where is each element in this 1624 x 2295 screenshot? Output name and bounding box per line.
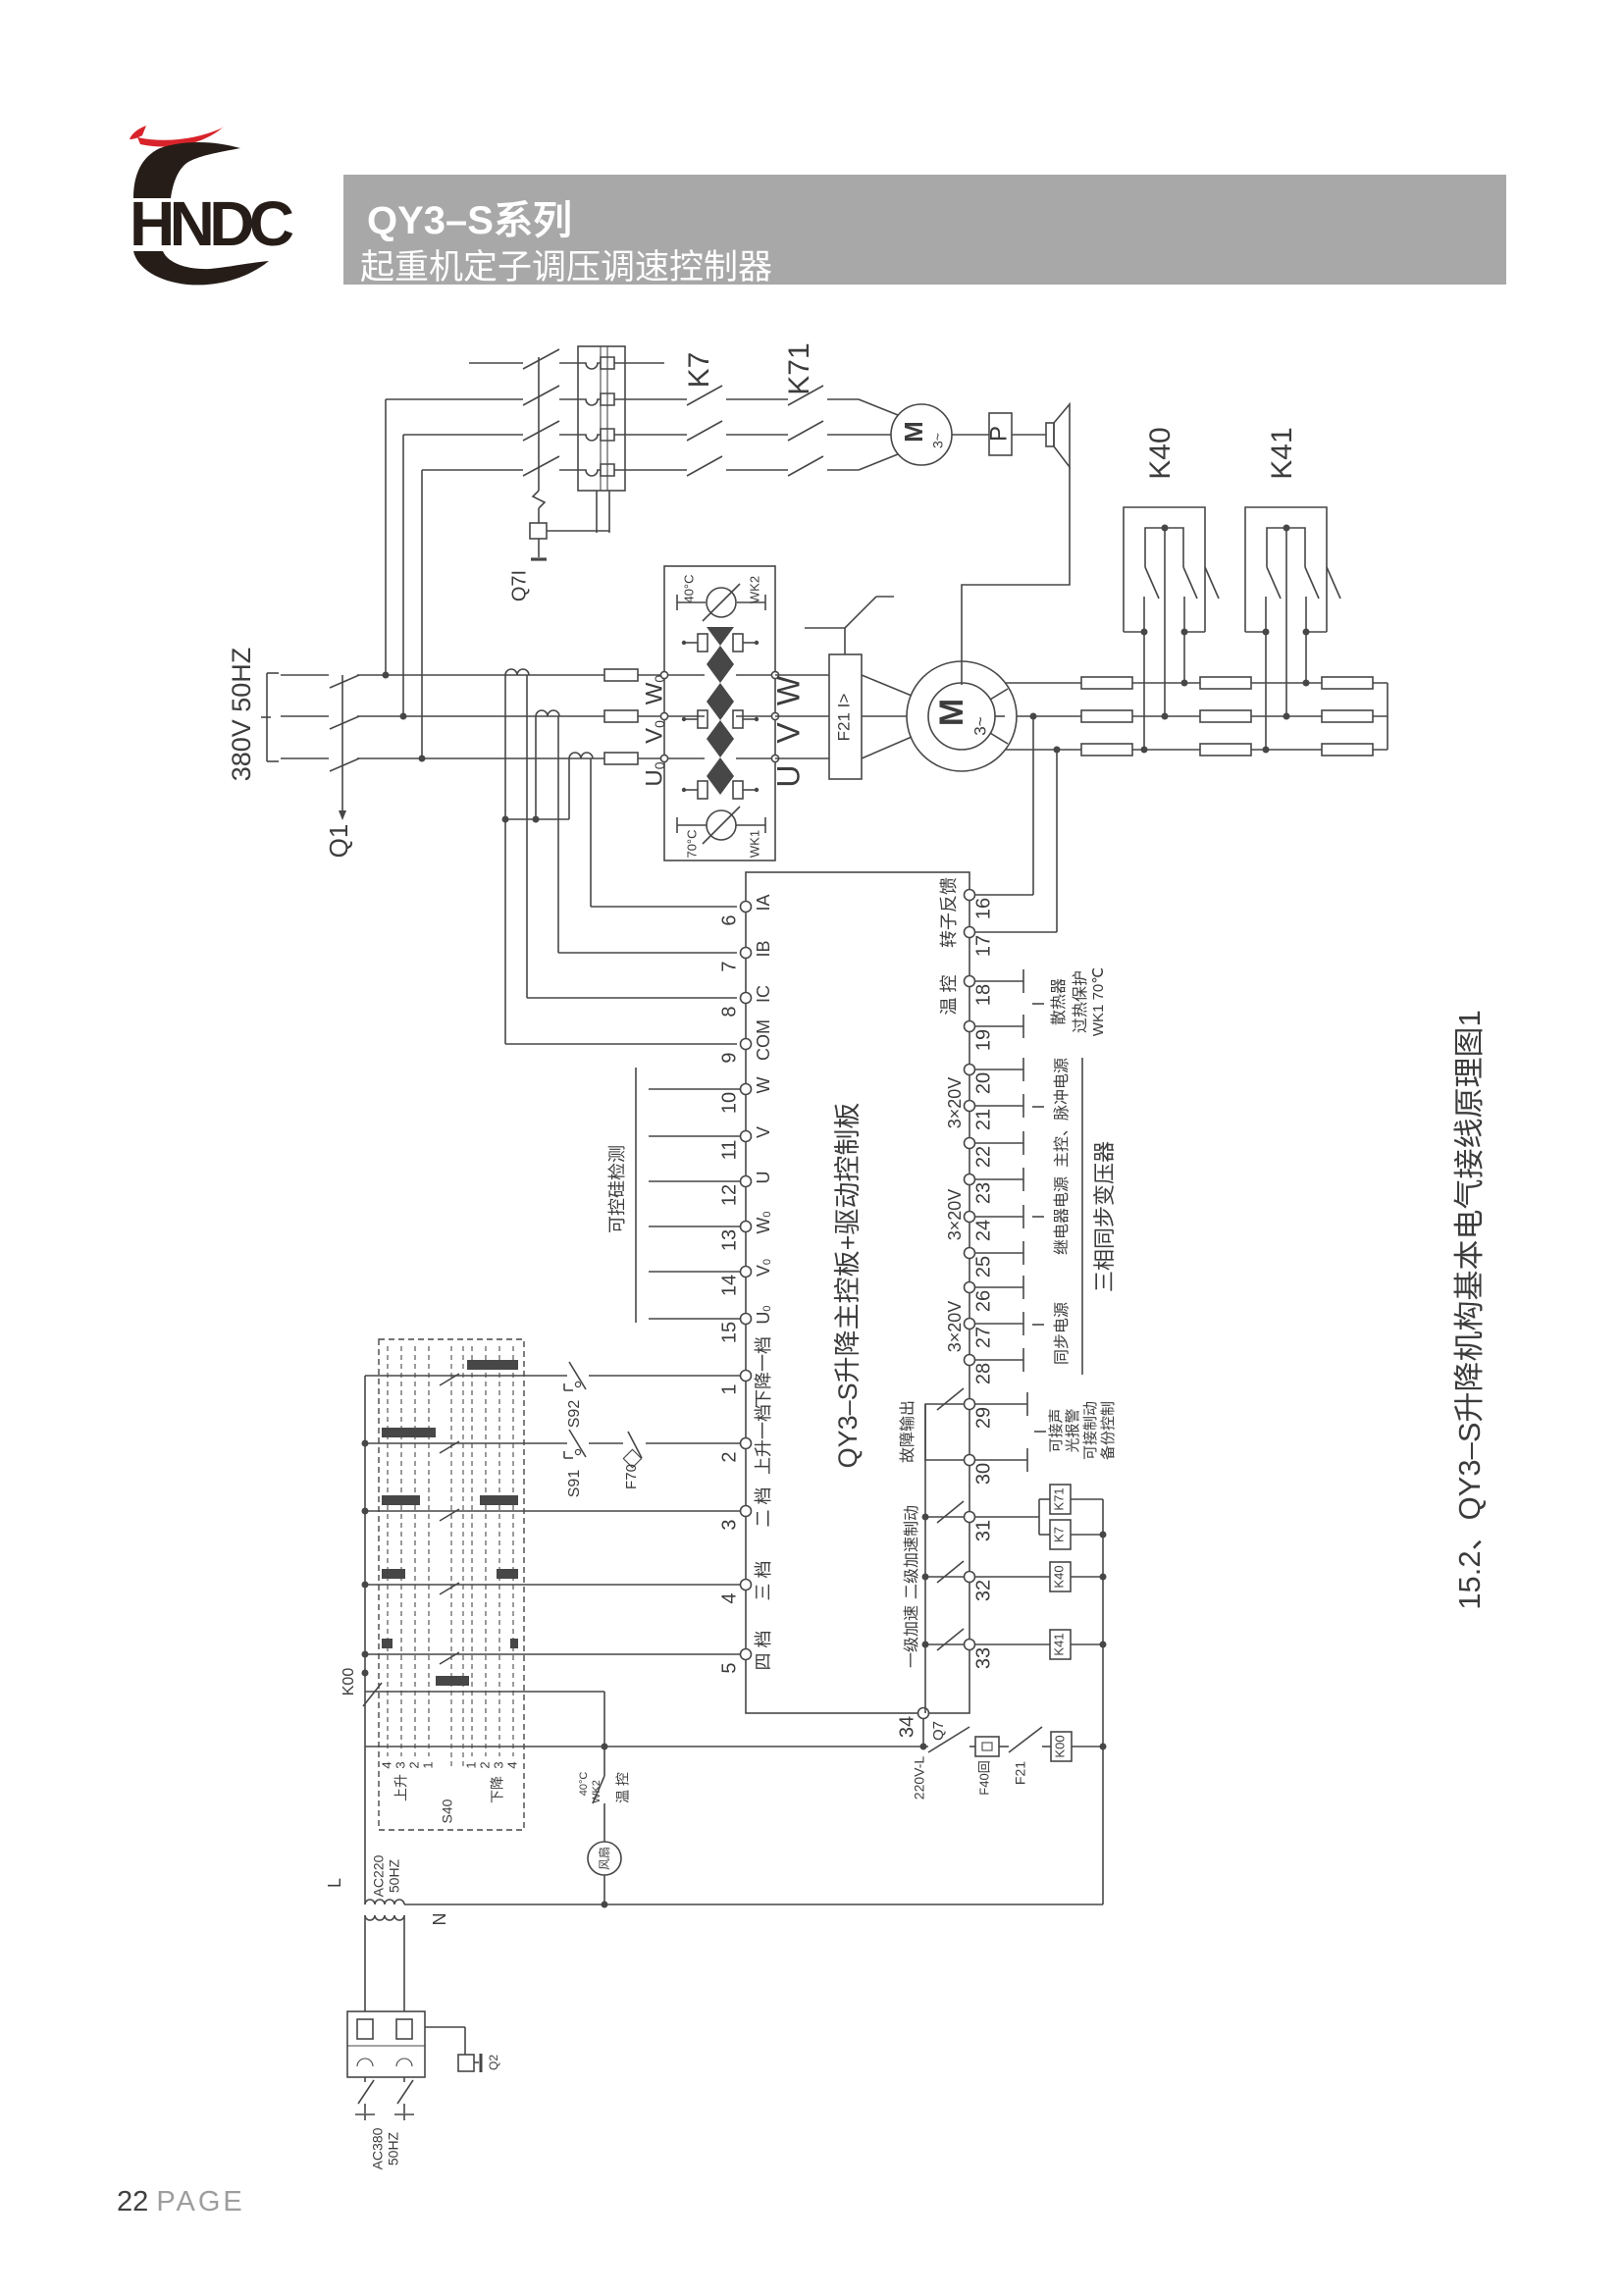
S40 row contacts <box>440 1374 459 1385</box>
wire pump to horn <box>1012 434 1046 436</box>
svg-text:9: 9 <box>718 1052 740 1063</box>
cooling fan <box>588 1842 621 1875</box>
brake motor M 3~ <box>891 404 952 465</box>
terminal 22 <box>965 1138 975 1149</box>
primary isolator poles <box>364 2077 366 2082</box>
resistor R3 <box>1081 744 1132 756</box>
terminal 5 <box>741 1649 752 1660</box>
svg-text:二 档: 二 档 <box>754 1487 773 1527</box>
svg-text:S91: S91 <box>566 1470 583 1498</box>
CT secondary drops <box>504 675 506 819</box>
svg-text:W: W <box>754 1077 773 1094</box>
svg-text:3~: 3~ <box>970 716 989 735</box>
terminal 31 <box>965 1512 975 1523</box>
svg-text:S40: S40 <box>440 1799 455 1823</box>
svg-text:24: 24 <box>972 1220 994 1241</box>
wire motor to pump <box>952 434 989 436</box>
svg-text:故障输出: 故障输出 <box>899 1400 917 1463</box>
thyristor module box <box>664 566 775 861</box>
terminal 15 <box>741 1314 752 1325</box>
logo black C crescent lower <box>133 251 269 285</box>
control rail <box>1102 1499 1104 1904</box>
terminal circles on thyristor box <box>660 671 667 678</box>
phase rows inside thyristor box <box>668 674 705 676</box>
svg-text:30: 30 <box>972 1463 994 1485</box>
svg-text:WK2: WK2 <box>747 576 761 603</box>
terminal 9 <box>741 1039 752 1050</box>
control transformer T1 secondary <box>364 1747 366 1904</box>
svg-text:AC380: AC380 <box>370 2127 386 2169</box>
svg-text:2: 2 <box>477 1761 492 1768</box>
svg-text:1: 1 <box>463 1761 478 1768</box>
svg-text:主控、脉冲电源: 主控、脉冲电源 <box>1053 1058 1071 1168</box>
K00 branch to fan <box>603 1692 605 1747</box>
terminal 21 <box>965 1101 975 1112</box>
svg-text:K40: K40 <box>1051 1565 1066 1588</box>
resistor right bus <box>1387 683 1388 750</box>
svg-text:V: V <box>770 722 806 744</box>
svg-text:IB: IB <box>754 940 773 957</box>
svg-text:23: 23 <box>972 1182 994 1204</box>
svg-text:WK1: WK1 <box>747 830 761 858</box>
svg-text:F70: F70 <box>623 1464 640 1489</box>
svg-text:F21: F21 <box>1013 1761 1028 1785</box>
master controller S40 dashed box <box>379 1339 524 1830</box>
horn / sounder <box>1046 423 1054 446</box>
svg-text:继电器电源: 继电器电源 <box>1053 1176 1071 1255</box>
svg-text:M: M <box>933 699 970 726</box>
svg-text:3×20V: 3×20V <box>945 1189 965 1241</box>
overload heater elements <box>578 357 625 369</box>
svg-text:3~: 3~ <box>930 433 946 448</box>
svg-text:温 控: 温 控 <box>939 974 959 1015</box>
limit switch S92 <box>538 1375 567 1377</box>
svg-text:可接制动: 可接制动 <box>1082 1401 1099 1460</box>
supply rows to thyristor box <box>357 674 664 676</box>
svg-text:V0: V0 <box>754 1259 773 1277</box>
svg-text:二级加速: 二级加速 <box>903 1537 920 1599</box>
svg-text:14: 14 <box>718 1275 740 1296</box>
S40 closed contact bars <box>467 1360 518 1370</box>
svg-text:三相同步变压器: 三相同步变压器 <box>1092 1141 1117 1292</box>
svg-text:K7: K7 <box>1051 1527 1066 1542</box>
terminal 8 <box>741 993 752 1004</box>
svg-text:50HZ: 50HZ <box>387 1858 402 1893</box>
svg-text:K41: K41 <box>1051 1633 1066 1655</box>
coil K00 <box>1051 1732 1072 1761</box>
svg-text:K00: K00 <box>1052 1735 1067 1757</box>
terminal 12 <box>741 1176 752 1187</box>
logo red swoosh <box>137 127 224 147</box>
resistor R6 <box>1200 744 1251 756</box>
svg-text:可接声: 可接声 <box>1047 1408 1065 1452</box>
terminal 2 <box>741 1438 752 1449</box>
accel contactor K40 contacts <box>1124 507 1205 632</box>
current transformer row3 <box>569 753 593 758</box>
rotor feedback wires 16 17 <box>975 894 1033 896</box>
HNDC logo <box>98 78 432 412</box>
svg-text:K71: K71 <box>1051 1487 1066 1510</box>
controller board box QY3-S <box>746 872 969 1713</box>
svg-text:U0: U0 <box>754 1305 773 1324</box>
coil K40 <box>975 1576 1050 1578</box>
primary fuse box <box>347 2011 425 2077</box>
svg-text:26: 26 <box>972 1290 994 1312</box>
svg-text:QY3–S升降主控板+驱动控制板: QY3–S升降主控板+驱动控制板 <box>833 1103 863 1469</box>
COM bus <box>505 818 569 820</box>
svg-text:4: 4 <box>379 1761 393 1768</box>
svg-text:28: 28 <box>972 1363 994 1384</box>
svg-text:AC220: AC220 <box>371 1854 387 1897</box>
overload trip pigtails <box>596 491 598 533</box>
thermal overload relay box <box>578 346 625 491</box>
svg-text:4: 4 <box>504 1761 519 1768</box>
svg-text:22: 22 <box>972 1146 994 1168</box>
svg-text:M: M <box>899 421 928 443</box>
svg-text:K40: K40 <box>1144 427 1177 479</box>
rotor resistor rows <box>1006 682 1388 684</box>
terminal 34 <box>918 1708 929 1719</box>
svg-text:IC: IC <box>754 985 773 1003</box>
snubber resistors on stack <box>698 634 707 652</box>
limit switch S91 <box>538 1442 567 1444</box>
svg-text:12: 12 <box>718 1184 740 1206</box>
svg-text:70°C: 70°C <box>684 829 699 858</box>
svg-text:散热器: 散热器 <box>1050 978 1068 1025</box>
svg-text:3: 3 <box>491 1761 505 1768</box>
neutral rail N <box>404 1904 1103 1905</box>
wires thyristor box to F21 <box>775 674 829 676</box>
svg-text:8: 8 <box>718 1006 740 1017</box>
svg-text:K41: K41 <box>1266 427 1298 479</box>
svg-text:7: 7 <box>718 961 740 971</box>
terminal 28 <box>965 1355 975 1366</box>
svg-text:四 档: 四 档 <box>754 1630 773 1670</box>
svg-text:2: 2 <box>718 1451 740 1462</box>
svg-text:4: 4 <box>718 1592 740 1603</box>
terminal 17 <box>965 927 975 938</box>
svg-text:P: P <box>985 426 1012 442</box>
svg-text:3: 3 <box>393 1761 407 1768</box>
terminal 25 <box>965 1248 975 1259</box>
internal common feed <box>924 1404 926 1713</box>
thyristor stack <box>707 627 734 646</box>
wire row1 stub after relay <box>625 362 664 364</box>
SCR detection brace <box>635 1068 637 1323</box>
resistor R4 <box>1200 677 1251 689</box>
terminal 19 <box>965 1021 975 1032</box>
three-phase sync transformer brace <box>1081 1058 1083 1375</box>
svg-text:光报警: 光报警 <box>1065 1408 1081 1452</box>
svg-text:下降一档: 下降一档 <box>754 1336 773 1407</box>
logo black C crescent upper <box>133 142 240 198</box>
svg-text:同步电源: 同步电源 <box>1053 1302 1071 1365</box>
wires into brake motor <box>859 399 903 417</box>
wire horn down to hoist motor shaft <box>962 467 1070 685</box>
resistor R2 <box>1081 710 1132 722</box>
svg-text:220V-L: 220V-L <box>912 1756 927 1800</box>
terminal 29 <box>965 1399 975 1410</box>
terminal 16 <box>965 890 975 901</box>
wire rows 2-4 from supply verticals <box>386 398 523 400</box>
svg-text:3: 3 <box>718 1519 740 1530</box>
svg-text:K00: K00 <box>341 1668 357 1696</box>
svg-text:10: 10 <box>718 1092 740 1114</box>
fault output external stubs <box>975 1403 1027 1405</box>
S40 shaft lines <box>450 1346 452 1766</box>
rotor spokes <box>990 689 1008 700</box>
wires to terminals 6-9 <box>591 906 737 908</box>
svg-text:Q1: Q1 <box>324 824 353 859</box>
contact K00 <box>365 1691 604 1693</box>
fault output internal contact <box>925 1404 964 1460</box>
earthing switch Q2 <box>425 2026 465 2028</box>
terminal 26 <box>965 1282 975 1293</box>
svg-text:制动: 制动 <box>903 1505 920 1537</box>
S40 left bus <box>364 1376 366 1747</box>
svg-text:三 档: 三 档 <box>754 1560 773 1600</box>
svg-text:U: U <box>754 1172 773 1184</box>
svg-text:F40回: F40回 <box>976 1760 991 1795</box>
terminal 11 <box>741 1131 752 1142</box>
breaker Q71 linkage and trip element <box>538 357 540 491</box>
sync transformer winding stubs 20-28 <box>975 1069 1023 1070</box>
coil K41 <box>975 1643 1050 1645</box>
fuse F40 <box>975 1737 999 1756</box>
svg-text:WK1 70℃: WK1 70℃ <box>1090 967 1107 1036</box>
svg-text:17: 17 <box>972 935 994 957</box>
coil branch 31 to K71 K7 <box>975 1516 1039 1518</box>
rotor feedback taps <box>1032 716 1034 895</box>
svg-text:21: 21 <box>972 1109 994 1130</box>
wire brake phase stub row1 <box>469 362 523 364</box>
svg-text:19: 19 <box>972 1029 994 1051</box>
svg-text:5: 5 <box>718 1662 740 1673</box>
svg-text:U: U <box>770 764 806 787</box>
hoist motor M 3~ wound rotor <box>907 661 1017 771</box>
svg-text:上升一档: 上升一档 <box>754 1404 773 1475</box>
svg-text:K7: K7 <box>683 352 715 389</box>
switch Q7 <box>928 1727 969 1752</box>
resistor R8 <box>1322 710 1373 722</box>
svg-text:COM: COM <box>754 1019 773 1061</box>
main switch Q1 <box>330 675 359 688</box>
gear rows wires <box>365 1375 538 1377</box>
current transformer row2 <box>536 710 559 716</box>
svg-text:一级加速: 一级加速 <box>903 1605 920 1668</box>
header grey banner <box>343 175 1506 285</box>
resistor R9 <box>1322 744 1373 756</box>
terminal 18 <box>965 976 975 987</box>
svg-text:380V 50HZ: 380V 50HZ <box>227 648 256 782</box>
svg-text:32: 32 <box>972 1580 994 1601</box>
svg-text:33: 33 <box>972 1647 994 1669</box>
coil K7 <box>1050 1520 1071 1549</box>
svg-text:Q7: Q7 <box>930 1721 947 1741</box>
thermostat WK2 40C <box>676 595 678 610</box>
brake pump P <box>989 413 1012 455</box>
terminal 27 <box>965 1319 975 1330</box>
svg-text:16: 16 <box>972 898 994 919</box>
svg-text:可控硅检测: 可控硅检测 <box>607 1145 627 1233</box>
svg-text:K71: K71 <box>783 342 815 394</box>
svg-text:Q2: Q2 <box>487 2055 500 2070</box>
terminal 14 <box>741 1267 752 1278</box>
F21 trip contact <box>844 628 846 654</box>
svg-text:W: W <box>770 675 806 705</box>
terminal 1 <box>741 1371 752 1382</box>
line fuses FU <box>604 669 638 681</box>
heatsink thermostat wires 18 19 <box>975 980 1023 982</box>
overcurrent relay F21 box <box>829 654 862 779</box>
svg-text:2: 2 <box>406 1761 421 1768</box>
control transformer T1 primary <box>365 1915 404 1920</box>
svg-text:50HZ: 50HZ <box>386 2131 401 2165</box>
svg-text:S92: S92 <box>566 1400 583 1429</box>
svg-text:温 控: 温 控 <box>615 1772 631 1803</box>
thermal fuse F70 <box>628 1432 642 1458</box>
svg-text:15: 15 <box>718 1322 740 1343</box>
accel contactor K41 contacts <box>1245 507 1327 632</box>
svg-text:27: 27 <box>972 1327 994 1348</box>
page number <box>117 2186 245 2218</box>
resistor R7 <box>1322 677 1373 689</box>
header title QY3-S <box>367 188 572 245</box>
svg-text:L: L <box>325 1878 344 1888</box>
wires F21 to hoist motor <box>862 675 912 696</box>
svg-text:34: 34 <box>896 1716 917 1738</box>
junction dots supply rows <box>383 672 390 679</box>
terminal 33 <box>965 1640 975 1650</box>
supply phase stubs <box>281 674 329 676</box>
svg-text:过热保护: 过热保护 <box>1072 970 1089 1033</box>
svg-text:风扇: 风扇 <box>597 1847 611 1870</box>
svg-text:备份控制: 备份控制 <box>1100 1401 1117 1460</box>
contactor K71 main contacts <box>788 386 823 405</box>
svg-text:40°C: 40°C <box>681 574 696 602</box>
terminal 3 <box>741 1506 752 1517</box>
svg-text:40°C: 40°C <box>578 1772 590 1797</box>
svg-text:转子反馈: 转子反馈 <box>939 877 959 948</box>
svg-text:IA: IA <box>754 894 773 911</box>
S40 position columns <box>387 1346 389 1756</box>
contact F21b <box>1009 1727 1042 1752</box>
svg-text:6: 6 <box>718 914 740 925</box>
svg-text:29: 29 <box>972 1407 994 1429</box>
svg-text:18: 18 <box>972 984 994 1006</box>
thermostat WK2 contact 40C <box>603 1747 605 1776</box>
svg-text:3×20V: 3×20V <box>945 1301 965 1353</box>
contactor K7 main contacts <box>625 398 687 400</box>
header subtitle <box>360 239 772 289</box>
svg-text:15.2、QY3–S升降机构基本电气接线原理图1: 15.2、QY3–S升降机构基本电气接线原理图1 <box>1452 1010 1487 1610</box>
coil K71 <box>1050 1485 1071 1514</box>
wire 34 to control row <box>922 1718 924 1747</box>
svg-text:1: 1 <box>718 1383 740 1394</box>
circuit breaker Q71 contacts <box>523 349 559 369</box>
terminal 10 <box>741 1084 752 1095</box>
svg-text:25: 25 <box>972 1256 994 1278</box>
svg-text:下降: 下降 <box>490 1776 505 1803</box>
resistor R1 <box>1081 677 1132 689</box>
terminal 30 <box>965 1455 975 1466</box>
terminal 32 <box>965 1572 975 1583</box>
svg-text:上升: 上升 <box>393 1774 409 1801</box>
terminal 6 <box>741 902 752 913</box>
svg-text:V: V <box>754 1126 773 1138</box>
supply bracket <box>266 673 268 761</box>
svg-text:20: 20 <box>972 1072 994 1094</box>
resistor R5 <box>1200 710 1251 722</box>
current transformer row1 <box>505 669 529 675</box>
svg-text:WK2: WK2 <box>591 1780 602 1803</box>
vertical riser wires to supply bus <box>385 399 387 675</box>
terminal 20 <box>965 1065 975 1075</box>
thermostat WK1 70C <box>676 817 678 833</box>
svg-text:Q7I: Q7I <box>508 570 530 601</box>
control row L <box>365 1746 928 1747</box>
svg-text:N: N <box>430 1913 449 1926</box>
svg-text:F21 I>: F21 I> <box>834 694 853 742</box>
svg-text:11: 11 <box>718 1140 740 1161</box>
terminal 23 <box>965 1174 975 1185</box>
svg-text:W0: W0 <box>754 1211 773 1233</box>
svg-text:31: 31 <box>972 1520 994 1541</box>
svg-text:3×20V: 3×20V <box>945 1077 965 1129</box>
svg-text:1: 1 <box>420 1761 435 1768</box>
terminal 24 <box>965 1212 975 1223</box>
terminal 7 <box>741 948 752 959</box>
internal output contacts 31-33 <box>925 1516 964 1518</box>
svg-text:13: 13 <box>718 1229 740 1251</box>
terminal 4 <box>741 1580 752 1591</box>
terminal 13 <box>741 1222 752 1232</box>
